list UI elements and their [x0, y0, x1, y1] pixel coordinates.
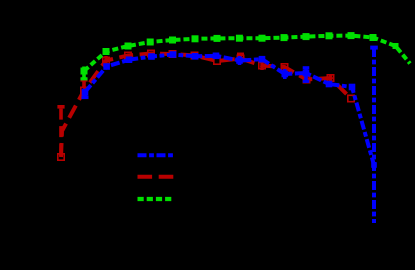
blue error bar at x=239 [238, 56, 242, 65]
red error bar at x=262 [260, 61, 263, 70]
green point markers (filled squares) [81, 32, 399, 74]
red error bar at x=240 [239, 55, 242, 63]
red legend sample [138, 175, 175, 179]
blue legend sample [138, 153, 176, 157]
blue error bar at x=306 [304, 68, 308, 81]
green error bar at first point [82, 67, 86, 80]
blue error bar at x=285 [283, 69, 287, 79]
green legend sample [138, 197, 173, 201]
red point markers (open squares) [58, 50, 354, 160]
red curve V2 (long-dash line with open square points and error bars) [57, 50, 354, 176]
red big error bar at first point [59, 109, 63, 154]
blue point markers (filled squares) [82, 51, 377, 168]
blue giant error bar at last point x=374 [372, 48, 376, 223]
blue curve V1 (dash-dot line with filled square points and error bars) [82, 48, 378, 223]
wire: red main polyline [61, 54, 351, 158]
red error bar at x=84 [82, 81, 86, 88]
red error bar at x=330 [329, 74, 332, 86]
blue error bar at first point [83, 92, 87, 97]
wire: blue main polyline [85, 55, 374, 166]
red error bar at x=106 [104, 56, 107, 65]
wire: green main polyline [84, 36, 410, 71]
green curve V3 (dotted line with filled square points) [81, 32, 411, 199]
